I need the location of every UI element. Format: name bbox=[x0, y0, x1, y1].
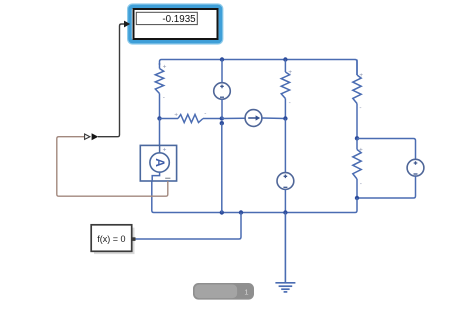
svg-text:-: - bbox=[163, 94, 165, 101]
node N4 bbox=[355, 136, 359, 140]
svg-text:1: 1 bbox=[244, 288, 248, 297]
svg-text:-0.1935: -0.1935 bbox=[162, 14, 196, 25]
ammeter minus label bbox=[165, 177, 170, 179]
scrollbar slider bbox=[193, 283, 254, 300]
svg-text:-: - bbox=[289, 100, 291, 107]
node dot on top bus at R3 bbox=[283, 57, 287, 61]
resistor R5 bbox=[353, 139, 361, 199]
display input arrowhead bbox=[124, 21, 130, 28]
ammeter A1 icon bbox=[150, 146, 169, 181]
wire N2 to current source I1 bbox=[222, 117, 245, 119]
svg-text:A: A bbox=[153, 158, 167, 167]
display block bbox=[134, 9, 218, 39]
wire V3 bottom to node N5 bbox=[357, 176, 416, 198]
wire signal (black) to display bbox=[98, 24, 125, 137]
svg-text:-: - bbox=[204, 110, 206, 117]
wire solver to bus bbox=[136, 213, 242, 240]
node N5 bbox=[355, 196, 359, 200]
wire V1 bottom bbox=[221, 99, 223, 118]
R5 polarity labels bbox=[359, 147, 363, 188]
R2 polarity labels bbox=[174, 110, 206, 119]
display value field bbox=[136, 12, 197, 25]
R3 polarity labels bbox=[288, 69, 292, 107]
voltage source V1 bbox=[214, 83, 231, 100]
voltage source V3 bbox=[407, 159, 424, 176]
current source I1 bbox=[245, 110, 262, 127]
wire N4 to V3 top bbox=[357, 139, 416, 160]
ground bbox=[275, 283, 295, 292]
PS arrowhead (open) bbox=[85, 134, 90, 139]
node N3 bbox=[283, 116, 287, 120]
wire V2 bottom to bus bbox=[284, 189, 286, 212]
svg-text:-: - bbox=[360, 181, 362, 188]
node dot on top bus at V1 bbox=[220, 57, 224, 61]
svg-text:+: + bbox=[359, 72, 363, 79]
wire top bus bbox=[160, 60, 358, 76]
wire V1 top bbox=[221, 60, 223, 83]
voltage source V2 bbox=[277, 173, 294, 190]
display block selection halo bbox=[128, 4, 223, 44]
wire bottom bus bbox=[152, 181, 357, 213]
ammeter A1 block bbox=[140, 145, 176, 181]
ammeter plus label bbox=[163, 146, 167, 153]
wire node N1 to ammeter bbox=[159, 118, 161, 146]
svg-text:+: + bbox=[174, 112, 178, 119]
node dot bus at branch N2 bbox=[220, 210, 224, 214]
svg-text:+: + bbox=[359, 147, 363, 154]
svg-text:-: - bbox=[359, 104, 361, 111]
node N1 bbox=[157, 116, 161, 120]
solver block port bbox=[132, 237, 136, 241]
svg-text:+: + bbox=[163, 64, 167, 71]
wire N3 down to V2 bbox=[284, 119, 286, 173]
svg-text:f(x) = 0: f(x) = 0 bbox=[97, 234, 125, 244]
node dot bus at solver wire bbox=[239, 210, 243, 214]
resistor R1 bbox=[155, 63, 163, 118]
resistor R2 bbox=[160, 115, 223, 123]
svg-text:+: + bbox=[288, 69, 292, 76]
svg-text:+: + bbox=[163, 146, 167, 153]
node N2 (double junction) bbox=[220, 116, 224, 125]
resistor R3 bbox=[281, 60, 289, 119]
node dot bus at ground bbox=[283, 210, 287, 214]
I1 arrow bbox=[248, 115, 260, 120]
signal arrowhead (filled) bbox=[92, 133, 99, 140]
wire physical signal (brown) from ammeter to converter arrow bbox=[57, 137, 168, 197]
wire I1 to node N3 bbox=[262, 117, 286, 120]
R4 polarity labels bbox=[359, 72, 363, 111]
wire N2 down to bus bbox=[221, 123, 223, 212]
wire ground stem bbox=[284, 213, 286, 283]
R1 polarity labels bbox=[163, 64, 167, 102]
resistor R4 bbox=[353, 60, 361, 139]
solver block f(x)=0 bbox=[91, 225, 134, 254]
